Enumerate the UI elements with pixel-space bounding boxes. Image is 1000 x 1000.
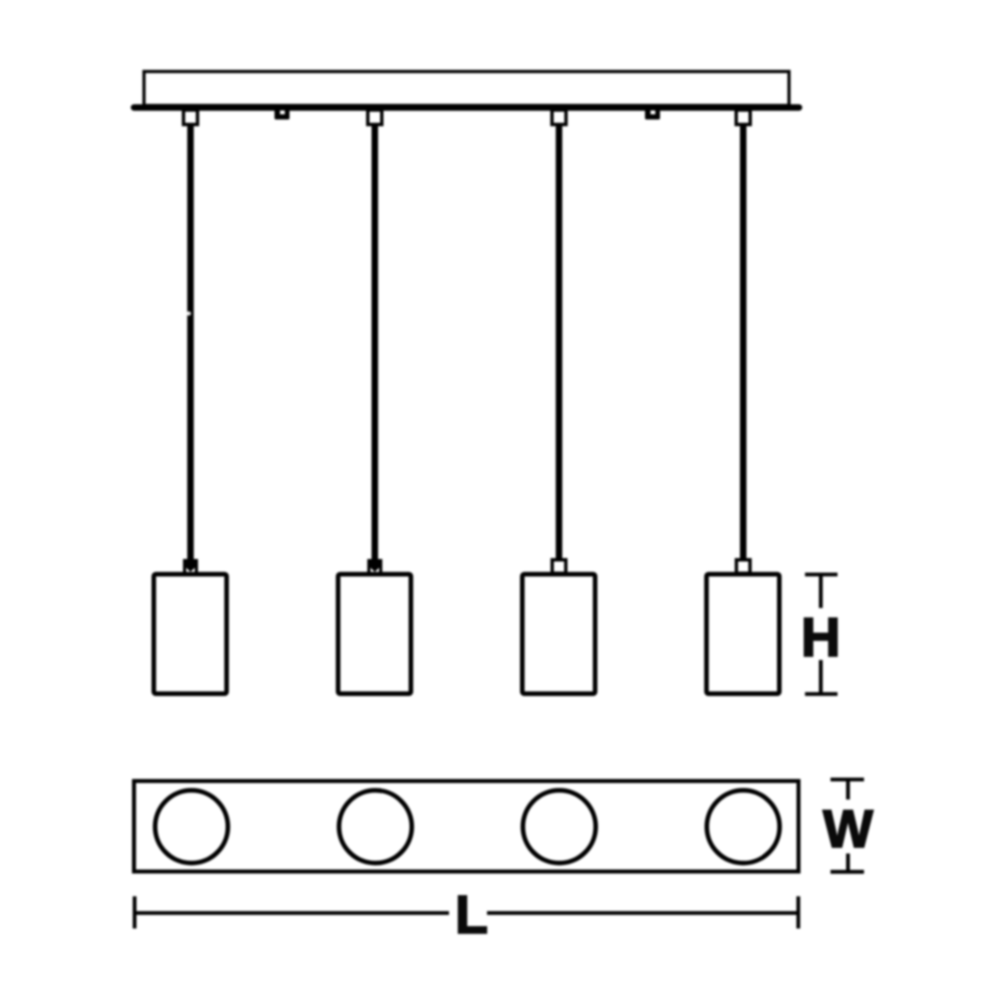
H dimension lower line bbox=[819, 660, 823, 694]
cord 1 stem joint bbox=[186, 311, 191, 315]
socket 1 (filled with notch) bbox=[183, 559, 198, 574]
canopy plate front view bbox=[144, 72, 789, 106]
socket 4 (outlined) bbox=[736, 560, 750, 574]
plan lamp circle 4 bbox=[707, 790, 780, 863]
stem connector 4 at canopy bbox=[736, 110, 750, 125]
cord 2 bbox=[372, 124, 379, 560]
stem connector 1 at canopy bbox=[184, 110, 198, 125]
H dimension bottom tick bbox=[805, 692, 838, 696]
cylinder shade 1 bbox=[154, 574, 227, 694]
mounting tab left bbox=[275, 111, 290, 120]
svg-text:L: L bbox=[455, 885, 488, 945]
H dimension top tick bbox=[805, 573, 838, 577]
W dimension lower line bbox=[846, 854, 850, 872]
stem connector 3 at canopy bbox=[552, 110, 566, 125]
W dimension bottom tick bbox=[831, 870, 865, 874]
mounting tab right bbox=[645, 111, 660, 120]
socket 2 (filled with notch) bbox=[367, 559, 382, 574]
plan lamp circle 2 bbox=[339, 790, 412, 863]
L dimension right tick bbox=[796, 896, 800, 928]
svg-text:W: W bbox=[823, 800, 873, 859]
plan lamp circle 1 bbox=[155, 790, 228, 863]
cylinder shade 2 bbox=[338, 574, 411, 694]
canopy bottom bar bbox=[134, 104, 799, 111]
H dimension upper line bbox=[819, 575, 823, 609]
socket 3 (outlined) bbox=[552, 560, 566, 574]
cord 1 bbox=[187, 124, 194, 560]
L dimension left line bbox=[135, 911, 449, 915]
plan lamp circle 3 bbox=[523, 790, 596, 863]
L dimension right line bbox=[487, 911, 798, 915]
cylinder shade 4 bbox=[707, 574, 780, 694]
cord 3 bbox=[556, 124, 563, 560]
stem connector 2 at canopy bbox=[368, 110, 382, 125]
cord 4 bbox=[740, 124, 747, 560]
W dimension upper line bbox=[846, 780, 850, 800]
W dimension top tick bbox=[831, 778, 865, 782]
cylinder shade 3 bbox=[522, 574, 595, 694]
svg-text:H: H bbox=[801, 606, 841, 668]
L dimension left tick bbox=[133, 896, 137, 928]
plan view plate bbox=[134, 781, 799, 872]
